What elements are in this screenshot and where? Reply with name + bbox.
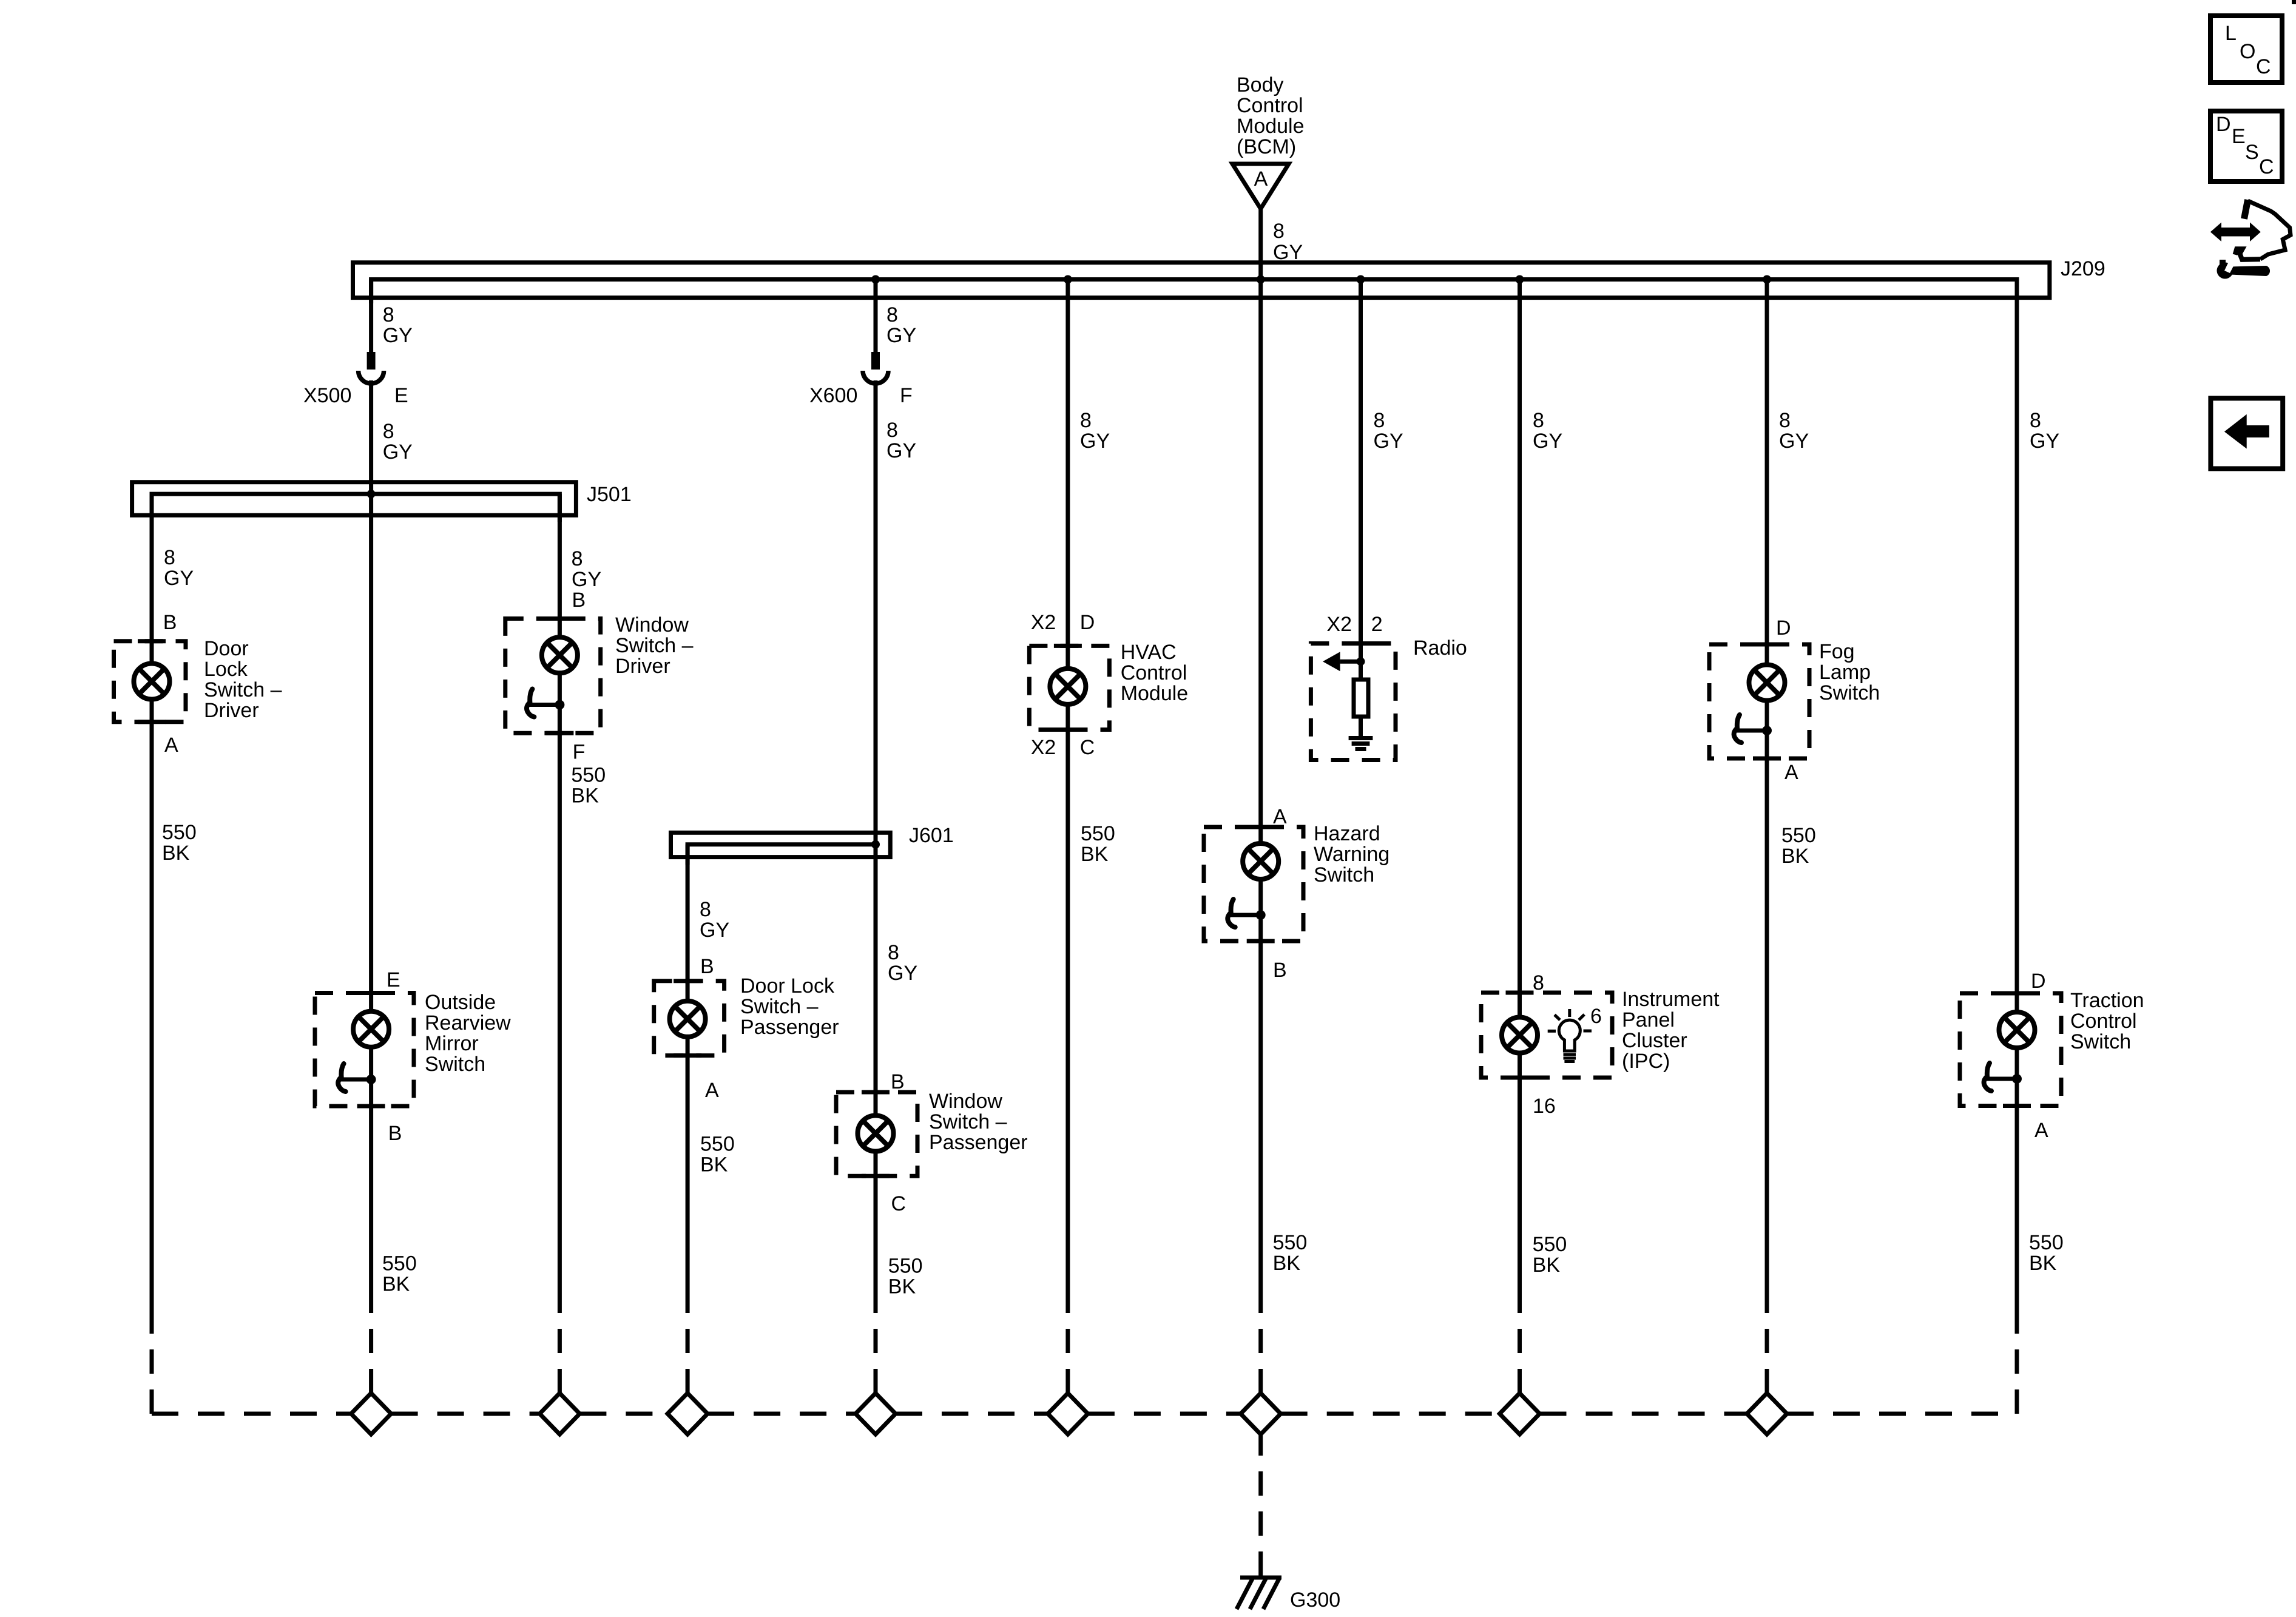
svg-text:Driver: Driver — [204, 699, 259, 722]
dashed ground wire from Traction Control Switch — [2015, 1309, 2019, 1414]
svg-text:J601: J601 — [909, 824, 954, 847]
connector X600 (pin F) — [863, 352, 888, 383]
svg-text:8: 8 — [886, 303, 898, 326]
svg-text:(IPC): (IPC) — [1622, 1050, 1670, 1073]
svg-text:Passenger: Passenger — [929, 1131, 1028, 1154]
svg-text:B: B — [1273, 959, 1287, 982]
svg-text:B: B — [572, 589, 586, 612]
svg-text:Lamp: Lamp — [1819, 661, 1871, 684]
dashed ground wire from Hazard Warning Switch — [1258, 1309, 1263, 1393]
svg-text:8: 8 — [886, 419, 898, 442]
svg-text:L: L — [2225, 22, 2237, 45]
J601 internal bus wire — [687, 845, 876, 865]
svg-text:8: 8 — [572, 547, 583, 570]
dashed ground wire from Door Lock Switch - Driver — [150, 1309, 154, 1414]
svg-text:S: S — [2245, 141, 2259, 164]
wire J209 to Instrument Panel Cluster — [1518, 280, 1522, 1310]
svg-text:B: B — [891, 1070, 905, 1093]
svg-text:GY: GY — [383, 324, 413, 347]
svg-text:X2: X2 — [1326, 613, 1352, 636]
svg-text:GY: GY — [164, 567, 194, 590]
wire J209 to X500 — [369, 280, 373, 354]
svg-text:550: 550 — [571, 764, 606, 787]
svg-text:550: 550 — [700, 1133, 735, 1156]
svg-text:8: 8 — [1779, 409, 1791, 432]
svg-text:BK: BK — [571, 785, 599, 808]
svg-text:G300: G300 — [1290, 1588, 1340, 1612]
LOC icon box — [2210, 16, 2282, 83]
wire J209 to X600 — [874, 280, 878, 353]
svg-text:Instrument: Instrument — [1622, 988, 1720, 1011]
svg-text:GY: GY — [886, 439, 916, 462]
Fog Lamp Switch contact — [1734, 715, 1772, 743]
svg-text:B: B — [388, 1122, 402, 1145]
svg-text:550: 550 — [162, 821, 197, 844]
splice pack J501 — [132, 482, 576, 516]
svg-text:6: 6 — [1590, 1005, 1602, 1028]
Outside Rearview Mirror Switch box — [315, 993, 414, 1107]
svg-text:550: 550 — [1781, 824, 1816, 847]
svg-text:Traction: Traction — [2070, 989, 2144, 1012]
svg-text:GY: GY — [700, 919, 729, 942]
svg-text:BK: BK — [888, 1275, 916, 1298]
wire J501 to Window Switch - Driver — [558, 494, 562, 1309]
svg-text:GY: GY — [888, 962, 917, 985]
wire J209 to Hazard Warning Switch — [1258, 280, 1263, 1310]
svg-text:Warning: Warning — [1314, 843, 1389, 866]
BCM connector triangle A — [1232, 164, 1289, 209]
dashed ground wire from Window Switch - Passenger — [874, 1309, 878, 1393]
Instrument Panel Cluster lamp — [1502, 1018, 1538, 1053]
svg-text:Cluster: Cluster — [1622, 1029, 1687, 1052]
svg-text:Fog: Fog — [1819, 640, 1855, 663]
splice diamonds on ground bus — [351, 1393, 391, 1434]
svg-text:BK: BK — [2029, 1252, 2057, 1275]
wire J601 to Door Lock Switch - Passenger — [686, 845, 690, 1309]
HVAC Control Module box — [1029, 646, 1109, 729]
Window Switch - Passenger box — [836, 1092, 917, 1176]
svg-text:Window: Window — [929, 1090, 1002, 1113]
svg-text:Switch –: Switch – — [929, 1110, 1007, 1133]
svg-text:E: E — [387, 968, 400, 991]
DESC icon box — [2210, 111, 2282, 181]
wire J209 to HVAC Control Module — [1065, 280, 1070, 1310]
splice pack J601 — [671, 832, 891, 857]
wire BCM A to J209 — [1258, 209, 1263, 280]
svg-text:550: 550 — [1533, 1233, 1567, 1256]
Outside Rearview Mirror Switch contact — [338, 1064, 376, 1092]
svg-text:8: 8 — [1080, 409, 1092, 432]
svg-text:GY: GY — [383, 441, 413, 464]
Radio box — [1311, 644, 1396, 760]
J501 junction dot — [367, 490, 376, 498]
svg-text:D: D — [1080, 611, 1095, 634]
svg-text:8: 8 — [164, 546, 175, 569]
svg-text:550: 550 — [1273, 1231, 1308, 1254]
svg-text:Mirror: Mirror — [425, 1032, 479, 1055]
svg-text:Door: Door — [204, 637, 249, 660]
svg-text:Control: Control — [1121, 661, 1187, 684]
svg-text:D: D — [2031, 970, 2046, 993]
J501 internal bus wire — [152, 494, 559, 522]
svg-text:Body: Body — [1237, 73, 1284, 96]
svg-text:Switch: Switch — [1314, 863, 1374, 886]
svg-text:8: 8 — [383, 420, 394, 443]
Traction Control Switch lamp — [1999, 1012, 2035, 1048]
Outside Rearview Mirror Switch lamp — [353, 1011, 389, 1047]
svg-text:BK: BK — [1273, 1252, 1301, 1275]
svg-text:8: 8 — [2030, 409, 2041, 432]
svg-text:C: C — [2259, 155, 2274, 178]
svg-text:HVAC: HVAC — [1121, 641, 1177, 664]
svg-text:550: 550 — [382, 1252, 417, 1275]
svg-text:8: 8 — [1273, 220, 1285, 243]
wire J501 to Outside Rearview Mirror Switch — [369, 494, 373, 1309]
dashed ground wire from HVAC Control Module — [1065, 1309, 1070, 1393]
svg-text:A: A — [1784, 761, 1798, 784]
svg-text:A: A — [1273, 805, 1287, 828]
svg-text:8: 8 — [1533, 409, 1544, 432]
svg-text:8: 8 — [700, 898, 711, 921]
svg-text:X600: X600 — [809, 384, 857, 407]
svg-text:D: D — [1776, 616, 1791, 640]
svg-text:8: 8 — [1374, 409, 1385, 432]
svg-text:F: F — [573, 741, 586, 764]
dashed ground wire from Outside Rearview Mirror Switch — [369, 1309, 373, 1393]
Radio internal ground — [1349, 717, 1373, 749]
Radio resistor — [1354, 661, 1368, 717]
svg-text:BK: BK — [700, 1153, 728, 1176]
Traction Control Switch box — [1960, 993, 2061, 1106]
svg-text:BK: BK — [162, 842, 190, 865]
svg-text:Hazard: Hazard — [1314, 822, 1380, 845]
svg-text:A: A — [164, 734, 178, 757]
Window Switch - Driver box — [505, 619, 601, 734]
dashed ground wire from Door Lock Switch - Passenger — [686, 1309, 690, 1393]
svg-text:Module: Module — [1121, 682, 1189, 705]
svg-text:Rearview: Rearview — [425, 1011, 511, 1035]
svg-text:550: 550 — [1081, 822, 1115, 845]
svg-text:E: E — [394, 384, 408, 407]
Door Lock Switch - Passenger lamp — [670, 1001, 706, 1037]
wire J209 to Traction Control Switch — [2015, 280, 2019, 1310]
svg-text:Panel: Panel — [1622, 1008, 1675, 1031]
svg-text:A: A — [705, 1079, 719, 1102]
dashed wire to G300 — [1258, 1434, 1263, 1576]
svg-text:GY: GY — [1374, 430, 1403, 453]
wire J209 to Fog Lamp Switch — [1765, 280, 1769, 1310]
wire J501 to Door Lock Switch - Driver — [150, 494, 154, 1309]
svg-text:Radio: Radio — [1413, 636, 1467, 660]
svg-text:Driver: Driver — [615, 655, 670, 678]
IPC bulb icon — [1548, 1009, 1592, 1062]
Door Lock Switch - Driver lamp — [134, 664, 170, 700]
Door Lock Switch - Driver box — [114, 641, 186, 722]
J601 junction dot — [871, 840, 880, 849]
svg-text:C: C — [891, 1192, 907, 1215]
connector X500 (pin E) — [359, 352, 384, 383]
svg-text:BK: BK — [1081, 843, 1109, 866]
svg-text:C: C — [2256, 55, 2271, 78]
svg-text:Lock: Lock — [204, 658, 248, 681]
Instrument Panel Cluster box — [1481, 993, 1612, 1078]
Hazard Warning Switch lamp — [1243, 843, 1278, 879]
svg-text:X2: X2 — [1031, 611, 1056, 634]
Window Switch - Driver lamp — [542, 637, 578, 673]
svg-text:B: B — [700, 955, 714, 978]
J209 internal bus wire — [371, 280, 2017, 304]
svg-text:B: B — [163, 611, 177, 634]
svg-text:GY: GY — [886, 324, 916, 347]
svg-text:Door Lock: Door Lock — [740, 974, 835, 998]
svg-text:GY: GY — [1779, 430, 1809, 453]
svg-text:Switch –: Switch – — [204, 678, 282, 701]
HVAC Control Module lamp — [1050, 669, 1086, 704]
page corner mark — [2292, 0, 2296, 4]
svg-text:J501: J501 — [587, 483, 632, 506]
svg-text:Control: Control — [1237, 94, 1303, 117]
svg-text:Switch: Switch — [2070, 1030, 2131, 1053]
ground G300 — [1237, 1578, 1281, 1609]
svg-text:C: C — [1080, 736, 1095, 759]
svg-text:GY: GY — [572, 568, 601, 591]
back arrow icon box — [2210, 398, 2283, 468]
svg-text:A: A — [1254, 167, 1268, 191]
svg-text:Passenger: Passenger — [740, 1016, 839, 1039]
svg-text:GY: GY — [2030, 430, 2059, 453]
Window Switch - Driver contact — [527, 689, 564, 717]
J209 junction dots — [871, 275, 880, 284]
svg-text:BK: BK — [382, 1273, 410, 1296]
svg-text:J209: J209 — [2061, 257, 2105, 280]
Fog Lamp Switch lamp — [1749, 665, 1785, 701]
Fog Lamp Switch box — [1709, 644, 1809, 758]
svg-text:BK: BK — [1533, 1254, 1561, 1277]
svg-text:Switch: Switch — [1819, 681, 1880, 704]
svg-text:F: F — [900, 384, 913, 407]
wire J209 to Radio — [1359, 280, 1363, 662]
svg-text:Window: Window — [615, 613, 689, 636]
svg-text:BK: BK — [1781, 845, 1809, 868]
Radio signal arrow — [1323, 652, 1361, 671]
dashed ground wire from Instrument Panel Cluster — [1518, 1309, 1522, 1393]
wire X600 to J601 — [874, 380, 878, 845]
svg-text:Control: Control — [2070, 1010, 2137, 1033]
Door Lock Switch - Passenger box — [654, 981, 724, 1056]
Hazard Warning Switch box — [1204, 827, 1303, 941]
dashed ground wire from Fog Lamp Switch — [1765, 1309, 1769, 1393]
wire J601 to Window Switch - Passenger — [874, 845, 878, 1309]
svg-text:GY: GY — [1533, 430, 1562, 453]
svg-text:X2: X2 — [1031, 736, 1056, 759]
svg-text:Switch: Switch — [425, 1053, 485, 1076]
svg-text:O: O — [2240, 40, 2255, 63]
svg-text:Switch –: Switch – — [740, 995, 819, 1018]
svg-text:550: 550 — [888, 1255, 923, 1278]
Traction Control Switch contact — [1984, 1063, 2022, 1091]
dashed ground bus wire — [152, 1412, 2017, 1416]
Radio junction dot — [1357, 657, 1365, 666]
svg-text:A: A — [2034, 1119, 2048, 1142]
svg-text:(BCM): (BCM) — [1237, 135, 1296, 158]
svg-text:Switch –: Switch – — [615, 634, 694, 657]
svg-text:550: 550 — [2029, 1231, 2064, 1254]
Hazard Warning Switch contact — [1227, 899, 1265, 927]
svg-text:16: 16 — [1533, 1095, 1556, 1118]
wire X500 to J501 — [369, 380, 373, 494]
svg-text:X500: X500 — [303, 384, 351, 407]
svg-text:GY: GY — [1080, 430, 1110, 453]
svg-text:Module: Module — [1237, 115, 1305, 138]
svg-text:E: E — [2232, 125, 2246, 148]
svg-text:8: 8 — [1533, 971, 1544, 994]
splice pack J209 — [353, 263, 2050, 298]
adjustable component icon (arrow and wrench) — [2210, 200, 2291, 279]
dashed ground wire from Window Switch - Driver — [558, 1309, 562, 1393]
Window Switch - Passenger lamp — [858, 1116, 894, 1152]
svg-text:2: 2 — [1371, 613, 1383, 636]
svg-text:Outside: Outside — [425, 991, 496, 1014]
svg-text:8: 8 — [383, 303, 394, 326]
svg-text:D: D — [2216, 113, 2231, 136]
svg-text:8: 8 — [888, 941, 899, 964]
